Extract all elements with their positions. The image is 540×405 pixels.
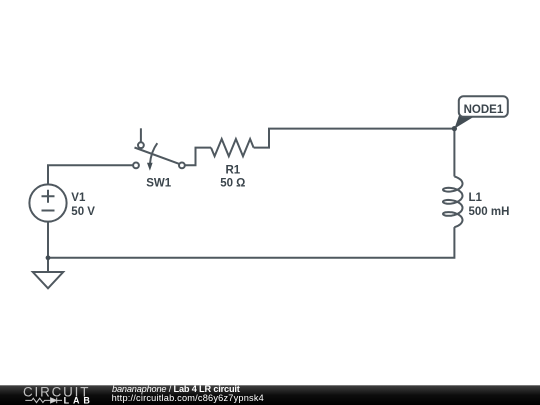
svg-text:50 V: 50 V [71, 206, 95, 218]
svg-text:L1: L1 [469, 192, 483, 204]
svg-text:http://circuitlab.com/c86y6z7y: http://circuitlab.com/c86y6z7ypnsk4 [112, 393, 264, 403]
CircuitLab logo [23, 384, 94, 405]
svg-text:LAB: LAB [64, 395, 94, 405]
node NODE1 junction dot [452, 126, 457, 131]
svg-text:500 mH: 500 mH [469, 206, 510, 218]
wire V1 top to SW1 [48, 165, 133, 184]
wire bottom rail to L1 [48, 227, 454, 258]
svg-text:50 Ω: 50 Ω [220, 178, 245, 190]
wire top rail to L1 [453, 129, 455, 177]
switch SW1 [133, 128, 185, 189]
svg-text:NODE1: NODE1 [464, 104, 504, 116]
wire V1 bottom to ground rail [47, 222, 49, 258]
svg-text:R1: R1 [226, 164, 241, 176]
ground [33, 258, 63, 289]
voltage source V1 [29, 184, 95, 221]
svg-text:SW1: SW1 [146, 178, 172, 190]
inductor L1 [443, 177, 509, 228]
footer bar [0, 385, 540, 405]
wire R1 to top rail [254, 129, 455, 148]
svg-text:V1: V1 [71, 192, 86, 204]
footer title text [112, 384, 264, 403]
junction dot at V1/ground [46, 255, 51, 260]
node NODE1 label [454, 96, 507, 128]
wire SW1 to R1 [185, 148, 211, 166]
resistor R1 [211, 139, 254, 190]
